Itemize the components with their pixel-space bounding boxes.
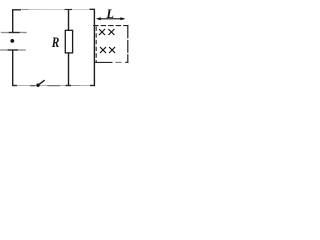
switch pivot dot — [36, 84, 39, 87]
wire top-left corner stub — [12, 9, 21, 11]
flux cross x4 — [109, 47, 115, 53]
wire top-right corner stub — [90, 8, 96, 10]
svg-text:L: L — [105, 7, 114, 21]
wire top junction segment — [65, 9, 73, 11]
switch blade — [39, 80, 45, 85]
wire left lower — [12, 50, 14, 86]
dimension arrow L shaft — [98, 18, 125, 20]
wire top dark dash — [22, 9, 29, 11]
capacitor top plate — [1, 32, 9, 34]
field box bottom edge — [95, 61, 113, 63]
wire switch left stub — [30, 85, 36, 87]
arrowhead left — [96, 17, 101, 20]
wire bottom middle segment — [48, 85, 61, 87]
charged particle dot — [10, 39, 14, 43]
wire bottom-right segment — [71, 85, 80, 87]
field box top edge — [93, 25, 128, 27]
field box left edge — [95, 27, 97, 63]
wire middle branch lower — [68, 53, 70, 86]
wire left upper — [12, 10, 14, 33]
svg-text:R: R — [51, 35, 59, 51]
field box right edge — [127, 25, 129, 63]
field region dashed box — [93, 25, 128, 63]
resistor R box — [65, 30, 72, 53]
wire middle branch upper — [68, 10, 70, 31]
capacitor bottom plate — [0, 49, 8, 51]
arrowhead right — [120, 17, 125, 20]
flux cross x3 — [100, 47, 106, 53]
wire bottom junction segment — [66, 85, 72, 87]
wire right branch — [93, 10, 95, 87]
wire top (faint) — [13, 9, 43, 11]
flux cross x1 — [99, 29, 105, 35]
wire bottom-left corner stub — [12, 85, 17, 87]
wire bottom (faint) — [13, 85, 95, 87]
wire bottom-right corner stub — [90, 85, 95, 87]
flux cross x2 — [108, 29, 114, 35]
